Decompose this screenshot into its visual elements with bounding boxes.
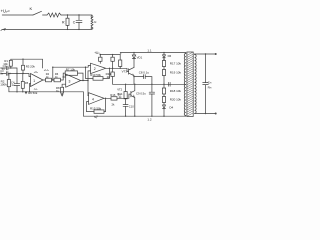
svg-text:100k: 100k — [0, 83, 7, 87]
op-amp 1 — [31, 74, 44, 87]
ground arrow input — [25, 92, 28, 95]
wire op1 output — [43, 79, 46, 81]
wire rail A — [11, 59, 43, 68]
wire emitter line — [134, 76, 144, 78]
svg-text:+Uv: +Uv — [34, 70, 38, 74]
svg-text:RH: RH — [208, 85, 212, 89]
svg-text:VT1: VT1 — [122, 69, 128, 73]
resistor R1 — [9, 60, 12, 66]
bottom rail — [83, 92, 185, 116]
resistor R18 — [162, 88, 165, 94]
junctions on input line2 — [9, 73, 10, 74]
svg-text:4: 4 — [92, 97, 94, 101]
svg-text:R5: R5 — [25, 81, 29, 85]
wire bottom rail — [2, 28, 92, 30]
wire top rail right — [61, 14, 92, 16]
resistor R6b — [54, 78, 60, 82]
resistor R19 — [162, 70, 165, 76]
resistor R4 — [46, 78, 52, 82]
transistor VT1 — [128, 69, 130, 75]
svg-text:C: C — [73, 20, 76, 24]
svg-text:VT2: VT2 — [117, 87, 122, 91]
secondary top wire — [195, 53, 216, 55]
resistor R5 — [21, 81, 24, 88]
junction dots on rails — [67, 14, 68, 15]
transistor VT2 — [130, 91, 132, 97]
svg-text:2k: 2k — [112, 103, 116, 107]
terminal dots — [215, 53, 217, 55]
svg-text:C10: C10 — [129, 105, 134, 109]
transducer u (top block) — [91, 16, 93, 18]
svg-text:C9 0.5u: C9 0.5u — [136, 91, 146, 95]
mid line — [113, 83, 186, 85]
wire line1 — [11, 68, 17, 74]
svg-text:2k: 2k — [107, 75, 111, 79]
capacitor C11 on mid link — [169, 82, 171, 86]
junctions on bottom-left wire — [16, 91, 17, 92]
diode D5 — [163, 53, 165, 55]
svg-text:+Uv≈: +Uv≈ — [1, 8, 11, 13]
resistor R7 feedback — [65, 71, 77, 75]
secondary bottom wire — [195, 112, 216, 114]
wire op4 output — [104, 97, 111, 99]
junctions on wire W1 — [85, 67, 86, 68]
switch K — [33, 11, 42, 15]
svg-text:1.1: 1.1 — [147, 49, 152, 53]
wire op2 output — [106, 68, 129, 71]
label +Uv — [1, 8, 11, 13]
svg-text:+Uv: +Uv — [94, 51, 100, 55]
diode VD1 — [133, 53, 135, 55]
op-amp 3 — [66, 74, 81, 87]
wire vertical node to op2 and op4 — [88, 71, 91, 96]
capacitor C9 — [149, 84, 154, 116]
junctions on mid line — [134, 84, 135, 85]
capacitor C4 — [14, 74, 19, 92]
label Ny — [94, 115, 98, 119]
capacitor C3 — [1, 72, 31, 77]
svg-text:R17 10k: R17 10k — [170, 61, 182, 65]
svg-text:1.2: 1.2 — [147, 118, 152, 122]
junctions on bottom rail — [96, 116, 97, 117]
ground arrow R8 — [61, 94, 64, 96]
svg-text:1: 1 — [33, 79, 35, 83]
op-amp 2 — [91, 63, 106, 73]
secondary winding — [194, 53, 196, 56]
core hatched — [187, 52, 193, 117]
resistor R16 — [111, 97, 117, 100]
svg-text:1u: 1u — [11, 83, 14, 87]
svg-text:C8 0.1u: C8 0.1u — [139, 71, 150, 75]
wire bottom left — [9, 91, 84, 93]
resistor R3 — [22, 65, 25, 70]
wire op1 lower input — [30, 84, 31, 92]
diode D4 — [163, 105, 166, 108]
label +Uv op2 — [94, 51, 100, 55]
svg-text:K: K — [30, 6, 33, 11]
svg-text:R7 10k: R7 10k — [66, 67, 76, 71]
svg-text:R19 10k: R19 10k — [170, 70, 182, 74]
wire op3 output — [81, 80, 88, 82]
load branch — [203, 54, 209, 114]
svg-text:+Uv: +Uv — [44, 68, 50, 72]
resistor R10 feedback — [93, 77, 103, 81]
resistor R17 — [162, 61, 165, 67]
wire W1 op1 out to op2 input — [53, 66, 91, 68]
svg-text:R10 50k: R10 50k — [90, 73, 101, 77]
resistor R20 — [162, 97, 165, 103]
capacitor C (top block) — [76, 15, 82, 29]
op1 +supply label — [34, 70, 38, 74]
svg-text:3: 3 — [69, 80, 71, 84]
svg-text:CH: CH — [208, 81, 212, 85]
supply node and boxes — [100, 54, 102, 56]
capacitor C8 — [144, 75, 152, 85]
top rail — [120, 52, 186, 54]
resistor R8 — [62, 84, 66, 87]
svg-text:-Uv: -Uv — [34, 87, 38, 91]
resistor R (top block) — [66, 18, 69, 25]
resistor R11 — [111, 72, 114, 77]
op-amp 4 — [89, 93, 105, 105]
resistor R12 — [119, 53, 122, 60]
svg-text:D6: D6 — [168, 54, 172, 58]
svg-text:R18 10k: R18 10k — [170, 89, 182, 93]
wire top rail left — [2, 14, 33, 16]
capacitor C1 — [1, 66, 11, 70]
svg-text:u: u — [94, 20, 96, 24]
resistor R2 — [7, 80, 10, 87]
svg-text:R20 10k: R20 10k — [170, 97, 182, 101]
op1 -supply label — [34, 87, 38, 91]
arrow bottom left — [2, 28, 6, 31]
svg-text:R: R — [62, 20, 65, 24]
primary winding — [185, 52, 187, 55]
svg-text:VD1: VD1 — [137, 56, 143, 60]
resistor R15 feedback — [94, 110, 104, 113]
svg-text:2: 2 — [94, 67, 96, 71]
svg-text:R16: R16 — [110, 93, 115, 97]
resistor R14 + capacitor C10 — [125, 84, 127, 91]
svg-text:R3 20k: R3 20k — [26, 65, 36, 69]
svg-text:D4: D4 — [169, 106, 173, 110]
inductor zigzag — [47, 13, 61, 17]
svg-text:R15 50k: R15 50k — [90, 106, 102, 110]
